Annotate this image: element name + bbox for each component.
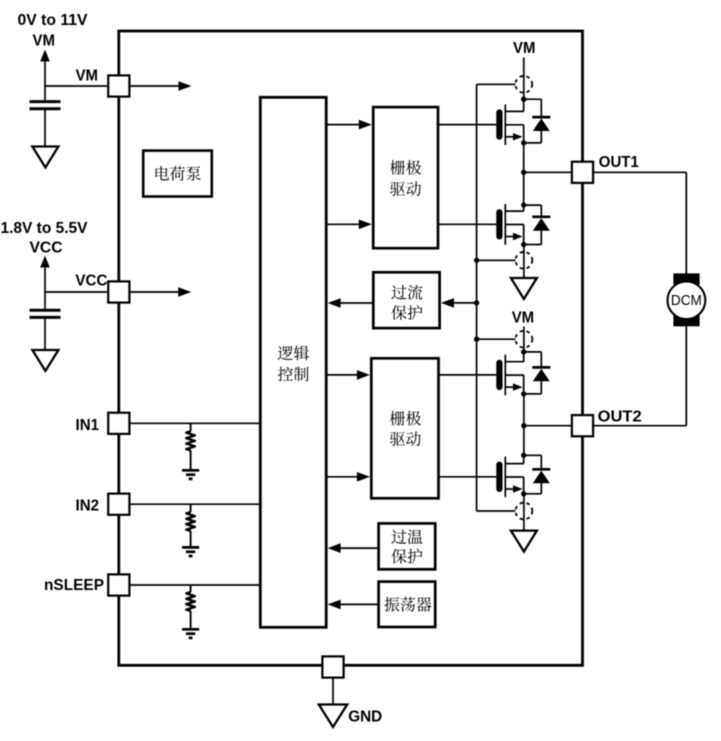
svg-text:OUT1: OUT1 — [599, 154, 639, 171]
pin IN1 — [108, 413, 129, 434]
text shan-ji (gate) 2 — [390, 411, 421, 426]
wire IN2 to resistor R2 — [190, 504, 192, 512]
text shan-ji (gate) 1 — [390, 160, 421, 175]
wire IN1 to resistor R1 — [190, 423, 192, 431]
text kong-zhi (control) — [278, 367, 309, 382]
wire OUT1 node to Q2 drain — [523, 172, 525, 205]
junction bus/OCP — [474, 300, 479, 305]
device boundary box — [119, 31, 583, 665]
node Q1 drain (drain) — [521, 97, 526, 102]
node Q3 source/OUT2 (source) — [521, 391, 526, 396]
node Q4 drain (drain) — [521, 453, 526, 458]
wire bus to current source I3 — [477, 338, 516, 340]
wire gate drive 2 to Q4 gate — [439, 476, 497, 478]
ground (VM bypass) — [32, 147, 58, 168]
wire R2 to ground — [190, 531, 192, 547]
wire gate drive 1 to Q2 gate — [438, 223, 496, 225]
svg-text:VM: VM — [76, 68, 98, 85]
block U-logic: logic control (luo ji kong zhi) — [260, 97, 326, 627]
text guo-wen (overtemperature) — [391, 529, 422, 544]
text zhen-dang-qi (oscillator) — [384, 597, 431, 612]
wire nSLEEP to resistor R3 — [190, 585, 192, 592]
wire OUT2 node to Q4 drain — [523, 426, 525, 456]
resistor R2 (IN2 pulldown) — [186, 512, 195, 531]
text bao-hu (protection) 2 — [391, 549, 422, 564]
ground (bridge 2) — [511, 531, 537, 552]
wire OUT1 to motor — [593, 171, 686, 173]
wire bus to current source I4 — [477, 510, 516, 512]
svg-text:DCM: DCM — [671, 293, 702, 309]
arrow logic to gate drive 2 (lower) — [326, 476, 358, 478]
wire VCC rail to VCC pin — [45, 291, 108, 293]
arrow overtemperature to logic — [340, 547, 379, 549]
wire gate drive 1 to Q1 gate — [438, 124, 496, 126]
wire GND pin to ground symbol — [332, 678, 334, 705]
arrow oscillator to logic — [340, 603, 379, 605]
current source I3 (dashed) — [516, 331, 533, 348]
wire R3 to ground — [190, 611, 192, 629]
wire Q2 source to I2/ground — [523, 245, 525, 279]
wire VM to Q1 drain — [523, 58, 525, 100]
current source I4 (dashed) — [516, 503, 533, 520]
wire rail to capacitor C2 — [44, 292, 46, 309]
body diode of Q3 — [524, 352, 551, 394]
text guo-liu (overcurrent) — [391, 285, 422, 300]
wire gate drive 2 to Q3 gate — [439, 374, 497, 376]
node Q1 source/OUT1 (source) — [521, 140, 526, 145]
pin OUT2 — [572, 415, 593, 436]
svg-text:IN1: IN1 — [76, 417, 100, 434]
svg-text:IN2: IN2 — [76, 498, 100, 515]
wire sense bus (vertical) — [476, 84, 478, 511]
block: overcurrent protection (guo liu bao hu) — [373, 272, 439, 328]
wire IN2 pin to logic — [119, 503, 260, 505]
arrow overcurrent to logic — [340, 302, 373, 304]
svg-text:OUT2: OUT2 — [598, 408, 642, 425]
svg-text:VCC: VCC — [75, 272, 107, 289]
resistor R3 (nSLEEP pulldown) — [186, 592, 195, 611]
transistor Q1 (NMOS) — [496, 99, 523, 145]
body diode of Q2 — [524, 205, 551, 244]
svg-text:VM: VM — [33, 33, 55, 50]
junction bus/I2 — [474, 258, 479, 263]
svg-text:nSLEEP: nSLEEP — [44, 577, 104, 594]
ground (R2) — [182, 546, 199, 549]
arrow VCC pin into device — [129, 291, 180, 293]
ground (R3) — [182, 628, 199, 631]
pin VCC — [108, 281, 129, 302]
arrow up on VCC rail — [44, 266, 46, 292]
transistor Q3 (NMOS) — [496, 352, 523, 395]
svg-text:VM: VM — [513, 40, 535, 57]
node Q2 drain (drain) — [521, 202, 526, 207]
wire Q3 source to OUT2 node — [523, 394, 525, 426]
text bao-hu (protection) 1 — [391, 305, 422, 320]
ground (bridge 1) — [511, 278, 537, 299]
ground (VCC bypass) — [32, 350, 58, 371]
arrow logic to gate drive 1 (upper) — [326, 124, 360, 126]
wire VM to Q3 drain — [523, 327, 525, 352]
body diode of Q1 — [524, 99, 551, 143]
junction bus/I3 — [474, 337, 479, 342]
node OUT1 junction — [521, 170, 526, 175]
body diode of Q4 — [524, 455, 551, 494]
wire OUT1 node to OUT1 pin — [524, 171, 572, 173]
block: overtemperature protection (guo wen bao hu) — [379, 523, 436, 569]
wire bus to current source I1 — [477, 83, 516, 85]
wire VM rail to VM pin — [45, 85, 108, 87]
wire R1 to ground — [190, 451, 192, 471]
pin GND — [322, 656, 343, 677]
wire rail to capacitor C1 — [44, 86, 46, 100]
pin VM — [108, 75, 129, 96]
block: oscillator (zhen dang qi) — [379, 582, 436, 627]
current source I1 (dashed) — [515, 76, 532, 93]
text qu-dong (drive) 2 — [390, 431, 421, 446]
current source I2 (dashed) — [516, 252, 533, 269]
motor M1 (DCM) — [668, 273, 706, 326]
node Q4 source (source) — [521, 491, 526, 496]
arrow logic to gate drive 2 (upper) — [326, 374, 358, 376]
ground (R1) — [182, 469, 199, 472]
svg-text:VM: VM — [512, 310, 534, 327]
svg-text:0V to 11V: 0V to 11V — [18, 12, 89, 29]
capacitor C2 (VCC bypass) — [30, 309, 61, 312]
node OUT2 junction — [521, 423, 526, 428]
wire IN1 pin to logic — [119, 422, 260, 424]
wire Q4 source to I4/ground — [523, 494, 525, 531]
wire motor to OUT2 — [685, 326, 687, 426]
node Q3 drain (drain) — [521, 349, 526, 354]
transistor Q4 (NMOS) — [496, 455, 523, 497]
pin nSLEEP — [108, 574, 129, 595]
svg-text:GND: GND — [348, 709, 382, 726]
transistor Q2 (NMOS) — [496, 204, 523, 245]
arrow up on VM rail — [44, 60, 46, 86]
wire C2 to ground — [44, 319, 46, 351]
wire OUT2 node to OUT2 pin — [524, 425, 572, 427]
arrow sense bus to overcurrent — [453, 302, 477, 304]
pin OUT1 — [572, 162, 593, 183]
wire Q1 source to OUT1 node — [523, 143, 525, 172]
resistor R1 (IN1 pulldown) — [186, 431, 195, 450]
node Q2 source (source) — [521, 242, 526, 247]
text dian-he-beng (charge pump) — [156, 166, 201, 181]
capacitor C1 (VM bypass) — [30, 100, 61, 103]
arrow VM pin into device — [129, 85, 180, 87]
wire nSLEEP pin to logic — [119, 584, 260, 586]
block: gate drive 1 (shan ji qu dong) — [373, 107, 438, 248]
svg-text:VCC: VCC — [30, 240, 63, 257]
ground GND — [319, 705, 347, 728]
text luo-ji (logic) — [278, 346, 309, 361]
block: gate drive 2 (shan ji qu dong) — [371, 358, 438, 498]
wire bus to current source I2 — [477, 259, 516, 261]
pin IN2 — [108, 494, 129, 515]
text qu-dong (drive) 1 — [390, 181, 421, 196]
wire C1 to ground — [44, 110, 46, 147]
arrow logic to gate drive 1 (lower) — [326, 223, 360, 225]
block: charge pump (dian he beng) — [143, 151, 212, 197]
svg-text:1.8V to 5.5V: 1.8V to 5.5V — [1, 220, 89, 237]
